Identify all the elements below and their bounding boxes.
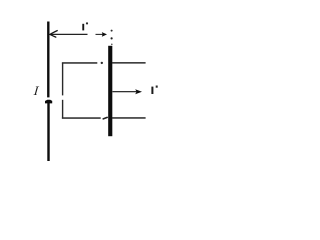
current arrow on wire W1 (points up) [45,100,52,104]
wire W1 (long straight current-carrying wire) upper segment [47,22,49,98]
dimension arrow r: right arrowhead [102,32,107,37]
top rail left segment [62,62,97,64]
rod (sliding conductor) [108,46,112,136]
dotted top of rod: dot 2 [111,37,113,39]
top rail right segment [112,62,146,64]
top rail dash-dot [101,62,103,64]
svg-text:I: I [32,83,40,98]
label r flag dot [86,22,88,24]
wire W1 lower segment [47,100,49,161]
dotted top of rod: dot 1 [111,30,113,32]
loop left side upper segment [62,63,63,96]
dimension arrow r: right segment shaft [96,33,103,35]
label r (distance) stem [82,24,84,31]
dotted top of rod: dot 3 [111,44,113,46]
bottom rail right segment [112,117,146,119]
velocity arrow shaft [113,91,137,93]
label v tip dot [156,86,158,88]
loop left side lower segment [62,100,63,119]
bottom rail dash [103,117,107,119]
dimension arrow r: left segment shaft [51,33,88,35]
dimension arrow r: left arrowhead [50,31,57,37]
bottom rail left segment [62,117,101,119]
label v stroke [151,87,153,94]
velocity arrowhead [135,89,142,94]
